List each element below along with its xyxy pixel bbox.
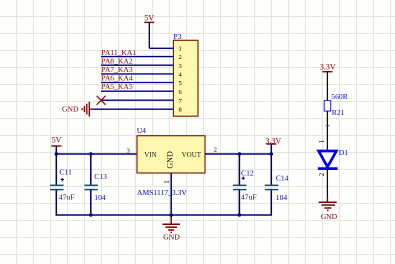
svg-text:AMS1117_3.3V: AMS1117_3.3V (137, 188, 187, 197)
svg-text:2: 2 (179, 54, 182, 61)
wire pin6 of P3 (101, 90, 173, 92)
svg-text:5V: 5V (52, 136, 62, 145)
ground GND (below D1) (319, 197, 338, 221)
node C12 top junction (238, 152, 241, 155)
wire bottom rail (56, 214, 272, 216)
wire pin5 of P3 (101, 82, 173, 84)
connector P3 body (173, 40, 198, 116)
svg-text:D1: D1 (339, 148, 348, 157)
power port 5V (P3 header) (144, 14, 154, 49)
svg-text:C12: C12 (241, 169, 254, 178)
LED D1 (318, 151, 338, 169)
svg-text:PA5_KA5: PA5_KA5 (101, 82, 133, 91)
svg-text:104: 104 (276, 193, 288, 202)
svg-text:VIN: VIN (144, 151, 156, 159)
svg-text:2: 2 (214, 146, 217, 153)
wire pin1 of P3 (149, 47, 173, 49)
power ground GND (left of P3) (62, 102, 89, 117)
svg-text:P3: P3 (174, 32, 182, 41)
capacitor C13 (84, 154, 98, 215)
wire pin8 stub (maroon) (89, 108, 95, 110)
svg-text:U4: U4 (137, 126, 146, 135)
wire pin7 of P3 (101, 99, 173, 101)
resistor R21 (324, 101, 331, 112)
svg-text:1: 1 (179, 46, 182, 53)
svg-text:VOUT: VOUT (182, 151, 202, 159)
svg-text:GND: GND (163, 233, 180, 242)
node 3.3V junction (270, 152, 273, 155)
svg-text:1: 1 (163, 180, 171, 184)
svg-text:2: 2 (318, 172, 326, 176)
wire VOUT (pin2) (205, 153, 271, 155)
svg-text:C11: C11 (59, 167, 72, 176)
node C13 top junction (89, 152, 92, 155)
svg-text:1: 1 (318, 139, 326, 143)
no-ERC marker X on pin7 (97, 96, 106, 105)
capacitor C11 (50, 154, 64, 216)
wire R21 to D1 (326, 111, 328, 150)
svg-text:3.3V: 3.3V (320, 63, 336, 72)
svg-text:PA8_KA2: PA8_KA2 (101, 56, 133, 65)
wire D1 to GND (326, 170, 328, 197)
node 5V junction (55, 152, 58, 155)
node C13 bottom junction (89, 213, 92, 216)
svg-text:GND: GND (166, 151, 175, 169)
svg-text:C14: C14 (276, 174, 289, 183)
svg-text:GND: GND (321, 212, 338, 221)
power port 3.3V (regulator output) (265, 137, 281, 155)
wire pin4 of P3 (101, 73, 173, 75)
wire pin2 of P3 (101, 56, 173, 58)
pin junction tick (326, 125, 330, 127)
regulator U4 body (137, 136, 205, 173)
power port 3.3V (LED branch) (320, 63, 336, 101)
svg-text:5V: 5V (144, 14, 154, 23)
capacitor C14 (265, 154, 279, 216)
svg-text:R21: R21 (332, 108, 345, 117)
node U4 ground junction (170, 213, 173, 216)
power port 5V (regulator input) (51, 136, 61, 154)
ground GND (below U4) (162, 217, 180, 242)
svg-text:104: 104 (94, 193, 106, 202)
svg-text:47uF: 47uF (59, 193, 75, 202)
wire U4 GND (pin1) (170, 173, 172, 219)
wire pin8 of P3 (94, 108, 173, 110)
svg-text:560R: 560R (331, 92, 348, 101)
wire pin3 of P3 (101, 64, 173, 66)
svg-text:GND: GND (62, 105, 79, 114)
node C12 bottom junction (238, 213, 241, 216)
svg-text:47uF: 47uF (241, 193, 257, 202)
wire 5V to VIN (56, 153, 137, 155)
capacitor C12 (233, 154, 247, 215)
svg-text:C13: C13 (94, 172, 107, 181)
